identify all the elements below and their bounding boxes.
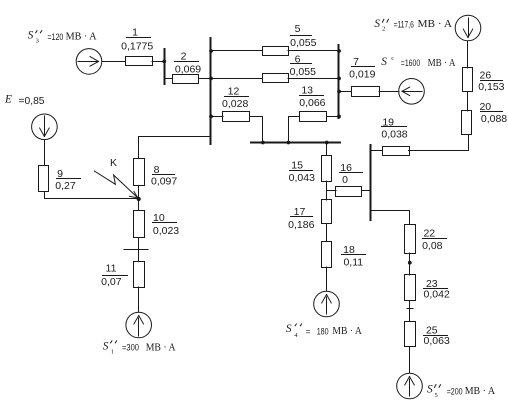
- wire R19 to R20 chain: [409, 135, 469, 151]
- source S4: [314, 291, 340, 317]
- source S1: [126, 312, 152, 338]
- label R12 value 12/0,028: [222, 85, 249, 110]
- label R11 value 11/0,07: [101, 263, 128, 289]
- resistor R19: [383, 147, 410, 156]
- svg-text:0,11: 0,11: [343, 257, 363, 269]
- label R15 value 15/0,043: [289, 159, 315, 184]
- source S5: [397, 373, 423, 399]
- svg-text:MB · A: MB · A: [332, 326, 362, 337]
- resistor R26: [463, 68, 473, 92]
- resistor R7: [352, 87, 380, 97]
- svg-text:13: 13: [301, 84, 313, 96]
- svg-text:K: K: [110, 157, 117, 169]
- svg-text:E: E: [4, 94, 12, 106]
- busbar C: [338, 45, 340, 118]
- label R20 value 20/0,088: [479, 101, 507, 125]
- tick node between R10 R11: [124, 249, 148, 251]
- svg-text:MB · A: MB · A: [465, 386, 496, 397]
- wire bus E to R19: [370, 150, 382, 152]
- svg-text:=1600: =1600: [401, 58, 420, 68]
- svg-text:5: 5: [295, 23, 301, 35]
- svg-text:S: S: [286, 323, 292, 335]
- busbar E: [370, 145, 372, 220]
- node mid bus center: [287, 141, 291, 145]
- svg-text:26: 26: [480, 70, 492, 82]
- resistor R23: [405, 275, 416, 301]
- svg-text:MB · A: MB · A: [428, 58, 456, 69]
- resistor R17: [322, 200, 332, 224]
- wire bus B to R6: [211, 78, 262, 80]
- svg-text:12: 12: [228, 85, 240, 97]
- label R10 value 10/0,023: [152, 212, 179, 237]
- resistor R16: [336, 187, 362, 197]
- node at bus A: [162, 60, 166, 64]
- svg-text:S: S: [381, 56, 387, 68]
- svg-text:0,097: 0,097: [151, 175, 177, 187]
- wire R2 to main bus: [199, 78, 211, 80]
- svg-text:2: 2: [181, 51, 187, 63]
- svg-text:0,043: 0,043: [289, 172, 315, 184]
- wire E to R9: [44, 140, 46, 165]
- node bus B row6: [209, 77, 213, 81]
- label source S4: [286, 323, 362, 339]
- svg-text:0,066: 0,066: [299, 97, 325, 109]
- label R25 value 25/0,063: [423, 325, 450, 348]
- resistor R22: [405, 225, 416, 254]
- resistor R15: [322, 156, 332, 182]
- wire R25 to S5: [409, 347, 411, 373]
- source E: [32, 114, 58, 140]
- node bus B row5: [209, 49, 213, 53]
- svg-text:=117,6: =117,6: [394, 19, 414, 29]
- svg-text:0,038: 0,038: [381, 129, 407, 141]
- svg-text:0: 0: [342, 174, 348, 186]
- svg-text:0,27: 0,27: [55, 180, 76, 192]
- svg-text:0,088: 0,088: [481, 113, 507, 125]
- wire bus C to R7: [339, 91, 351, 93]
- node between R22 R23: [408, 261, 412, 265]
- label source S1: [103, 340, 176, 355]
- label R16 value 16/0: [339, 162, 363, 186]
- label R22 value 22/0,08: [422, 228, 447, 253]
- svg-text:0,028: 0,028: [222, 98, 248, 110]
- busbar B (main): [210, 38, 212, 144]
- svg-text:S: S: [374, 18, 380, 30]
- resistor R11: [134, 262, 145, 288]
- wire R17 to R18: [326, 224, 328, 241]
- resistor R2: [173, 75, 199, 84]
- label R18 value 18/0,11: [341, 244, 366, 269]
- busbar D (middle horizontal): [251, 142, 340, 144]
- label R6 value 6/0,055: [290, 54, 316, 78]
- source S3: [76, 49, 102, 75]
- node mid bus right: [325, 141, 329, 145]
- wire R18 to S4: [326, 267, 328, 291]
- svg-text:MB · A: MB · A: [418, 19, 453, 30]
- tick node between R23 R25: [407, 308, 413, 310]
- label source Sc: [381, 55, 455, 69]
- wire R5 to bus C: [288, 50, 339, 52]
- label source S5: [427, 384, 495, 400]
- svg-text:0,023: 0,023: [153, 225, 179, 237]
- source S2: [455, 15, 481, 41]
- svg-text:180: 180: [317, 326, 329, 336]
- svg-text:c: c: [391, 55, 394, 62]
- label R8 value 8/0,097: [151, 164, 177, 188]
- svg-text:0,153: 0,153: [478, 81, 504, 93]
- wire R22 to R23: [409, 253, 411, 275]
- label source S2: [374, 18, 452, 32]
- svg-text:S: S: [427, 384, 433, 396]
- svg-text:2: 2: [382, 25, 385, 32]
- svg-text:S: S: [28, 30, 34, 42]
- wire R8 to K node: [138, 186, 140, 199]
- svg-text:=: =: [306, 326, 311, 336]
- svg-text:0,055: 0,055: [290, 66, 316, 78]
- resistor R25: [405, 322, 416, 347]
- svg-text:3: 3: [36, 38, 39, 45]
- node bus C row13: [337, 115, 341, 119]
- wire bus E to R22: [371, 211, 410, 225]
- wire mid bus to R15: [326, 142, 328, 155]
- svg-text:0,063: 0,063: [424, 335, 450, 347]
- node K: [137, 197, 141, 201]
- label R17 value 17/0,186: [288, 206, 314, 231]
- resistor R9: [39, 166, 49, 192]
- label R23 value 23/0,042: [423, 278, 450, 301]
- svg-text:MB · A: MB · A: [146, 342, 176, 353]
- svg-text:0,055: 0,055: [290, 37, 316, 49]
- label R5 value 5/0,055: [290, 23, 317, 49]
- svg-text:0,069: 0,069: [175, 63, 201, 75]
- wire R26 to S2: [467, 41, 469, 68]
- svg-text:0,019: 0,019: [349, 69, 375, 81]
- resistor R1: [126, 57, 153, 66]
- svg-text:1: 1: [111, 349, 114, 356]
- svg-text:11: 11: [106, 263, 117, 275]
- wire R10 to R11: [138, 238, 140, 261]
- node bus C row5: [337, 49, 341, 53]
- label R13 value 13/0,066: [299, 84, 326, 109]
- wire R7 to Sc: [379, 91, 399, 93]
- svg-text:S: S: [103, 340, 109, 352]
- resistor R18: [322, 242, 332, 268]
- wire bus A to R2: [165, 78, 172, 80]
- svg-text:0,1775: 0,1775: [121, 40, 153, 52]
- wire R11 to S1: [138, 287, 140, 312]
- label R19 value 19/0,038: [381, 117, 408, 141]
- label R26 value 26/0,153: [478, 70, 504, 93]
- busbar A: [164, 49, 166, 84]
- wire junction to R16: [327, 190, 336, 192]
- wire bus B to R5: [211, 50, 262, 52]
- svg-text:0,08: 0,08: [422, 240, 443, 252]
- svg-text:0,07: 0,07: [101, 276, 122, 288]
- svg-text:MB · A: MB · A: [66, 32, 97, 43]
- svg-text:0,042: 0,042: [424, 289, 450, 301]
- svg-text:=0,85: =0,85: [19, 96, 45, 107]
- wire S3 to R1: [102, 61, 125, 63]
- node bus C row6: [337, 77, 341, 81]
- node bus C row7: [337, 90, 341, 94]
- resistor R20: [462, 111, 472, 135]
- wire R23 to R25: [409, 301, 411, 321]
- label R7 value 7/0,019: [349, 56, 375, 81]
- wire R20 to R26: [467, 92, 469, 111]
- svg-text:=200: =200: [447, 386, 463, 396]
- wire R6 to bus C: [288, 78, 339, 80]
- wire R9 to K node: [45, 192, 139, 199]
- resistor R13: [300, 112, 327, 122]
- wire K node to R10: [138, 199, 140, 210]
- wire R16 to bus E: [362, 190, 370, 192]
- wire mid bus to R13: [289, 117, 300, 143]
- wire R15 to R17: [326, 181, 328, 200]
- wire R12 to mid bus: [251, 117, 263, 143]
- svg-text:0,186: 0,186: [288, 219, 314, 231]
- label R1 value 1/0,1775: [121, 27, 153, 53]
- label source S3: [28, 30, 97, 45]
- resistor R5: [263, 47, 289, 56]
- svg-text:5: 5: [435, 392, 438, 399]
- wire R1 to bus A: [152, 61, 165, 63]
- resistor R8: [134, 159, 145, 186]
- node mid bus left: [261, 141, 265, 145]
- label source E: [4, 94, 45, 107]
- wire node8 to bus B: [139, 137, 211, 159]
- svg-text:22: 22: [423, 228, 435, 240]
- label R9 value 9/0,27: [55, 168, 81, 192]
- resistor R10: [134, 211, 145, 238]
- svg-text:1: 1: [132, 27, 138, 39]
- resistor R12: [223, 112, 250, 122]
- svg-text:=120: =120: [47, 32, 63, 42]
- short-circuit arrow K: [94, 171, 138, 198]
- source Sc: [399, 79, 425, 105]
- svg-text:=300: =300: [122, 342, 139, 352]
- label R2 value 2/0,069: [174, 51, 201, 76]
- wire bus B to R12: [211, 116, 223, 118]
- node bus B row12: [209, 115, 213, 119]
- resistor R6: [263, 74, 289, 83]
- svg-text:15: 15: [291, 159, 303, 171]
- wire R13 to bus C: [327, 116, 339, 118]
